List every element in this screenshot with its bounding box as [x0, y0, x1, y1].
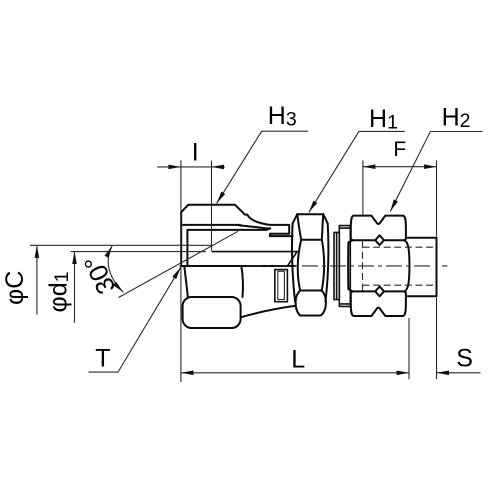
svg-text:I: I	[192, 139, 199, 167]
bore line section edge	[212, 251, 297, 253]
hex H1 lens arcs	[298, 240, 324, 291]
hex H1 chamfers	[293, 214, 328, 223]
30 degree arc	[108, 246, 123, 293]
center line	[246, 265, 448, 267]
knurl boundary line lower + diamond	[353, 287, 404, 297]
T label and leader	[89, 267, 181, 372]
retaining ring window outer	[275, 270, 288, 302]
F dimension	[363, 166, 437, 168]
S dimension	[437, 372, 481, 374]
hex H1 top flat	[297, 213, 323, 215]
phiC dimension	[36, 246, 38, 315]
30 degree line	[119, 231, 239, 297]
knurl boundary line upper + diamond	[353, 235, 404, 245]
phid1 dimension	[74, 252, 76, 323]
thread line (phiC) inside part	[30, 244, 212, 246]
left hex inner slant	[184, 266, 188, 297]
hex H1 top cap inner curves	[297, 214, 323, 240]
hex H1 boundary lines	[300, 240, 322, 291]
svg-text:F: F	[393, 138, 406, 161]
tongue lens top curve	[236, 225, 270, 229]
I dimension	[157, 166, 225, 168]
collar piece	[339, 226, 350, 307]
washer lines	[334, 232, 339, 299]
L dimension	[181, 372, 409, 374]
thread depth vertical / I right extension	[211, 160, 213, 250]
body flange outline (top-left section)	[181, 205, 289, 266]
knurled nut H2 outline	[348, 216, 409, 316]
svg-text:φC: φC	[1, 271, 29, 305]
hex nut H1 bottom cap	[296, 291, 326, 316]
H2 label and leader	[390, 132, 482, 212]
H1 label and leader	[309, 131, 405, 212]
bore line (phid1) extension	[71, 251, 206, 253]
left hex nut top line	[181, 265, 244, 267]
hex H1 silhouette arcs	[292, 223, 328, 301]
flange bottom line	[181, 224, 240, 226]
left hex barrel (rounded)	[183, 297, 241, 328]
neck top line	[270, 234, 293, 236]
tongue lens bottom line	[187, 228, 270, 230]
neck solid edge at centerline + cone chamfer	[244, 265, 295, 267]
svg-text:S: S	[456, 344, 473, 372]
svg-text:T: T	[95, 344, 110, 372]
retaining ring window inner	[278, 271, 285, 299]
bore vertical	[186, 230, 188, 266]
hidden thread dashes	[363, 246, 437, 248]
H3 label and leader	[217, 131, 308, 203]
bell curve to neck	[241, 306, 295, 317]
left hex right face arc	[241, 266, 243, 297]
svg-text:L: L	[291, 346, 305, 374]
threaded stud	[408, 238, 437, 297]
